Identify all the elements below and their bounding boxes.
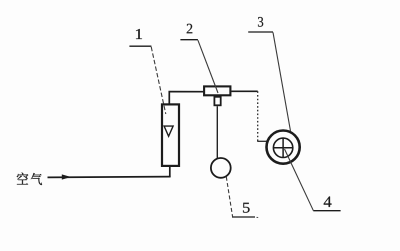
label 1 underline <box>129 45 151 47</box>
label 5 leader <box>226 177 232 217</box>
sensor bulb (component 5) <box>211 158 231 178</box>
label 2 underline <box>180 39 198 41</box>
wire: pipe right of valve <box>231 90 257 92</box>
label 3 leader <box>273 32 291 131</box>
air inlet label 空气 (vector glyphs) <box>17 173 42 185</box>
wire: air inlet line <box>48 176 171 179</box>
label 3 underline <box>248 31 273 33</box>
label 1 leader <box>151 47 166 114</box>
label 2 digit <box>187 24 193 34</box>
label 4 underline <box>313 210 340 212</box>
label 5 digit <box>243 203 250 213</box>
wire: down pipe from valve to sensor bulb <box>216 106 218 158</box>
wire: short connector into pump <box>257 140 267 142</box>
label 5 underline <box>232 216 255 218</box>
label 5 underline dot <box>257 216 259 218</box>
valve bottom stub rect <box>214 97 220 106</box>
pump cross horizontal <box>273 147 293 149</box>
valve body (component 2) <box>204 86 230 95</box>
wire: dashed riser down to pump <box>257 91 259 141</box>
label 1 digit <box>136 29 142 39</box>
pump cross vertical <box>282 138 284 158</box>
label 2 leader <box>198 40 218 93</box>
label 4 digit <box>324 197 332 207</box>
label 4 leader <box>285 149 314 211</box>
flow direction arrowhead <box>62 174 71 179</box>
pump inner circle (component 4) <box>273 138 292 157</box>
wire: flowmeter bottom stub <box>169 166 171 177</box>
label 3 digit <box>258 17 263 27</box>
pump outer circle (component 3) <box>267 131 300 164</box>
wire: flowmeter top stub and top pipe to valve <box>169 92 203 104</box>
flowmeter float (triangle) <box>164 126 173 136</box>
flowmeter body (component 1) <box>162 104 179 165</box>
